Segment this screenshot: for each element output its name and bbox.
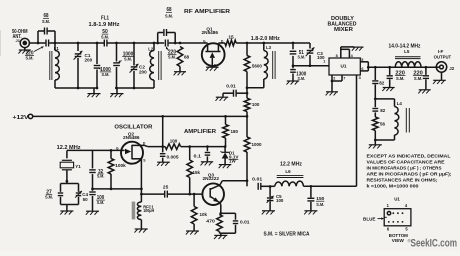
svg-text:RESISTANCES ARE IN OHMS;: RESISTANCES ARE IN OHMS; xyxy=(367,178,439,183)
svg-text:200: 200 xyxy=(139,70,147,75)
svg-text:L6: L6 xyxy=(285,169,291,174)
svg-text:0.01: 0.01 xyxy=(226,83,236,89)
svg-text:12.2 MHz: 12.2 MHz xyxy=(280,162,303,168)
svg-text:1.8-2.0 MHz: 1.8-2.0 MHz xyxy=(251,36,281,42)
svg-text:6: 6 xyxy=(361,67,363,71)
svg-text:50: 50 xyxy=(83,197,89,202)
svg-text:Y1: Y1 xyxy=(75,164,81,169)
svg-text:3: 3 xyxy=(359,76,361,80)
svg-text:ARE IN PICOFARADS ( pF OR μμF): ARE IN PICOFARADS ( pF OR μμF); xyxy=(367,172,453,177)
svg-text:100: 100 xyxy=(170,138,178,144)
svg-text:68: 68 xyxy=(184,55,190,60)
svg-text:S.M.: S.M. xyxy=(101,34,109,39)
svg-text:470: 470 xyxy=(206,219,215,225)
svg-text:7: 7 xyxy=(343,77,345,81)
svg-text:15: 15 xyxy=(228,34,234,40)
svg-text:S.M.: S.M. xyxy=(165,13,173,18)
svg-text:J2: J2 xyxy=(449,66,455,71)
svg-text:100μH: 100μH xyxy=(143,208,154,213)
svg-text:S.M.: S.M. xyxy=(414,76,423,81)
svg-text:2N5486: 2N5486 xyxy=(202,30,219,35)
svg-text:25: 25 xyxy=(163,185,169,191)
svg-text:S.M.: S.M. xyxy=(102,72,110,77)
svg-text:S.M.: S.M. xyxy=(168,55,176,60)
svg-text:FL1: FL1 xyxy=(101,16,109,22)
svg-text:200: 200 xyxy=(85,58,93,63)
svg-text:100: 100 xyxy=(276,198,284,203)
svg-text:G: G xyxy=(116,146,119,150)
svg-text:S.M.: S.M. xyxy=(316,202,324,207)
svg-text:RF AMPLIFIER: RF AMPLIFIER xyxy=(184,9,230,15)
svg-text:VIEW: VIEW xyxy=(392,238,405,243)
svg-text:82: 82 xyxy=(379,80,385,85)
svg-text:S.M. = SILVER MICA: S.M. = SILVER MICA xyxy=(264,232,310,238)
svg-text:82: 82 xyxy=(380,108,386,113)
svg-text:S.M.: S.M. xyxy=(298,54,306,59)
svg-text:L4: L4 xyxy=(397,101,403,106)
svg-text:U1: U1 xyxy=(394,197,400,202)
svg-text:L3: L3 xyxy=(266,45,272,50)
svg-text:1: 1 xyxy=(323,60,325,64)
svg-text:150: 150 xyxy=(316,196,325,201)
svg-text:S.M.: S.M. xyxy=(97,200,105,205)
svg-text:0.01: 0.01 xyxy=(240,219,250,225)
svg-text:5: 5 xyxy=(361,58,363,62)
svg-text:56: 56 xyxy=(380,121,386,126)
svg-text:2N2222: 2N2222 xyxy=(203,176,220,181)
svg-text:100k: 100k xyxy=(115,163,126,169)
svg-text:+12V: +12V xyxy=(13,115,30,121)
svg-text:1000: 1000 xyxy=(252,142,262,148)
svg-text:VALUES OF CAPACITANCE ARE: VALUES OF CAPACITANCE ARE xyxy=(367,160,445,165)
svg-text:0.005: 0.005 xyxy=(167,154,179,160)
svg-text:180: 180 xyxy=(231,129,239,135)
svg-text:S.M.: S.M. xyxy=(42,19,50,24)
svg-text:IN MICROFARADS ( μF ) ; OTHERS: IN MICROFARADS ( μF ) ; OTHERS xyxy=(367,166,442,171)
svg-text:100: 100 xyxy=(252,102,260,108)
svg-text:10k: 10k xyxy=(200,212,208,218)
svg-text:2N5486: 2N5486 xyxy=(123,135,140,140)
svg-text:k =1000, M=1000 000: k =1000, M=1000 000 xyxy=(367,183,420,188)
svg-text:J1: J1 xyxy=(16,38,21,43)
svg-text:OUTPUT: OUTPUT xyxy=(434,54,452,59)
svg-text:U1: U1 xyxy=(341,64,347,69)
svg-text:5600: 5600 xyxy=(252,64,262,70)
svg-text:L5: L5 xyxy=(404,49,410,54)
svg-text:2: 2 xyxy=(333,77,335,81)
svg-text:S.M.: S.M. xyxy=(45,195,53,200)
svg-text:1.8-1.9 MHz: 1.8-1.9 MHz xyxy=(89,22,121,28)
svg-text:12.2 MHz: 12.2 MHz xyxy=(57,145,82,151)
svg-text:BLUE: BLUE xyxy=(363,216,376,221)
svg-text:S.M.: S.M. xyxy=(396,76,405,81)
svg-text:0.1: 0.1 xyxy=(194,154,202,160)
svg-text:MIXER: MIXER xyxy=(334,27,353,33)
svg-text:0.01: 0.01 xyxy=(252,177,262,183)
svg-text:S.M.: S.M. xyxy=(298,76,306,81)
svg-text:S.M.: S.M. xyxy=(124,57,132,62)
svg-text:15k: 15k xyxy=(193,170,201,176)
svg-text:S.M.: S.M. xyxy=(97,174,105,179)
svg-text:AMPLIFIER: AMPLIFIER xyxy=(184,129,216,135)
svg-text:EXCEPT AS INDICATED, DECIMAL: EXCEPT AS INDICATED, DECIMAL xyxy=(367,154,451,159)
svg-text:8: 8 xyxy=(336,54,338,58)
svg-text:G: G xyxy=(203,40,206,44)
svg-text:S.M.: S.M. xyxy=(26,56,34,61)
svg-text:OSCILLATOR: OSCILLATOR xyxy=(114,125,152,131)
svg-text:SeekIC.com: SeekIC.com xyxy=(411,237,458,249)
